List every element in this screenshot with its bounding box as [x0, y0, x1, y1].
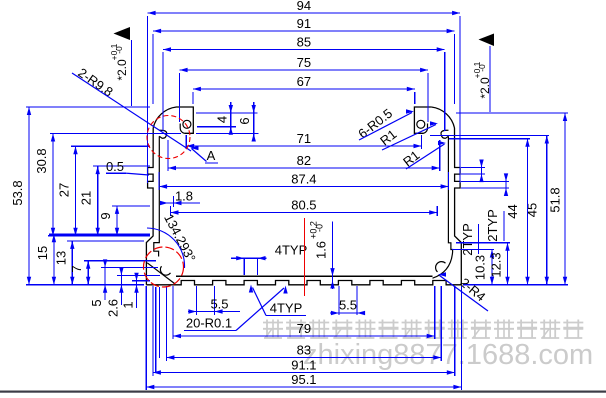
svg-text:4TYP: 4TYP [275, 243, 308, 258]
dim 85 [163, 35, 445, 52]
extension lines for dim 91 [153, 34, 455, 104]
svg-text:-0: -0 [315, 224, 325, 232]
dim 1.8 [160, 189, 200, 208]
svg-text:9: 9 [98, 212, 113, 219]
svg-text:95.1: 95.1 [291, 372, 316, 387]
extension lines for dim 71 [186, 135, 421, 149]
leader 2-R4 [438, 272, 489, 311]
svg-text:10.3: 10.3 [473, 255, 488, 280]
dim 0.5 [106, 159, 149, 175]
dim 2TYP second rib [461, 173, 509, 241]
angle dim 134.293 [147, 211, 199, 268]
dim 91.1 [153, 358, 455, 375]
dim 10.3 [452, 250, 494, 285]
svg-text:75: 75 [297, 55, 311, 70]
dim 20-R0.1 leader [184, 286, 288, 331]
svg-text:1.8: 1.8 [175, 189, 193, 204]
red centerline [304, 218, 306, 296]
watermark company text [263, 320, 593, 372]
dim 80.5 [171, 198, 438, 215]
dim 67 [193, 74, 415, 91]
svg-text:79: 79 [297, 321, 311, 336]
extension lines for dim 80.5 [171, 206, 438, 216]
dim 53.8 [10, 107, 150, 285]
dim 5.5 left [188, 286, 240, 315]
dim 9 [98, 206, 150, 236]
dim 95.1 [146, 372, 461, 389]
dim 12.3 [456, 243, 510, 285]
svg-text:20-R0.1: 20-R0.1 [186, 316, 232, 331]
svg-text:44: 44 [505, 204, 520, 218]
dim 15 [35, 234, 150, 284]
svg-text:45: 45 [525, 203, 540, 217]
svg-text:67: 67 [297, 74, 311, 89]
svg-text:30.8: 30.8 [34, 148, 49, 173]
bottom border line [0, 391, 606, 393]
dim 87.4 [159, 172, 449, 189]
extension lines for dim 95.1 [146, 286, 461, 390]
svg-text:zhixing8877.1688.com: zhixing8877.1688.com [303, 339, 593, 371]
svg-text:85: 85 [297, 35, 311, 50]
svg-text:-0: -0 [114, 46, 124, 54]
dim 2TYP first rib [460, 160, 485, 256]
dim 1.6 tolerance [309, 221, 335, 289]
svg-text:71: 71 [297, 131, 311, 146]
svg-text:-0: -0 [477, 64, 487, 72]
dim 4 [196, 102, 258, 135]
svg-text:27: 27 [57, 183, 72, 197]
leader R1 first [377, 121, 438, 150]
dim 4TYP leader [249, 285, 306, 316]
svg-text:0.5: 0.5 [106, 159, 124, 174]
extension lines for dim 82 [168, 140, 440, 171]
dim 91 [153, 16, 455, 33]
extension lines for dim 87.4 [159, 172, 449, 190]
svg-text:87.4: 87.4 [291, 172, 316, 187]
svg-text:91.1: 91.1 [291, 358, 316, 373]
dim 27 [57, 146, 151, 235]
svg-text:4: 4 [215, 116, 230, 123]
leader A detail [191, 146, 219, 163]
extension lines for dim 75 [180, 73, 429, 122]
dim 13 [53, 241, 144, 285]
dim 7 [69, 261, 156, 285]
leader R1 second [400, 141, 446, 170]
svg-text:6: 6 [237, 117, 252, 124]
extension line bottom right [463, 284, 568, 286]
svg-text:21: 21 [79, 191, 94, 205]
extension lines for dim 94 [148, 16, 461, 183]
extension lines for dim 91.1 [153, 286, 455, 376]
svg-text:13: 13 [53, 251, 68, 265]
dim 83 [166, 343, 441, 360]
svg-text:*2.0: *2.0 [115, 59, 129, 81]
svg-text:15: 15 [35, 246, 50, 260]
svg-text:53.8: 53.8 [10, 180, 25, 205]
svg-text:12.3: 12.3 [489, 252, 504, 277]
dim 1 [121, 273, 151, 309]
svg-text:94: 94 [297, 0, 311, 13]
dim 4TYP notch top [231, 243, 307, 276]
svg-text:2.6: 2.6 [106, 299, 121, 317]
dim 71 [186, 131, 421, 148]
dim 79 [173, 321, 435, 338]
extension lines for dim 83 [166, 286, 441, 361]
dim 44 [449, 139, 530, 285]
dim 75 [180, 55, 429, 72]
aluminum profile cross-section outline [146, 107, 461, 285]
surface note left *2.0 [109, 27, 132, 106]
svg-text:1.6: 1.6 [314, 241, 329, 259]
svg-text:51.8: 51.8 [548, 187, 563, 212]
dim 5 [89, 259, 158, 306]
svg-text:82: 82 [297, 153, 311, 168]
dim 21 [79, 166, 150, 236]
dim 6 [196, 102, 259, 142]
dim 94 [148, 0, 461, 15]
svg-text:2TYP: 2TYP [485, 209, 500, 242]
red detail circle bottom-left [144, 247, 184, 287]
dim 2.6 [106, 267, 161, 317]
svg-text:A: A [207, 148, 216, 163]
svg-text:5.5: 5.5 [210, 297, 228, 312]
svg-text:1: 1 [121, 301, 136, 308]
svg-text:5.5: 5.5 [339, 298, 357, 313]
dim 82 [168, 153, 440, 170]
svg-text:2TYP: 2TYP [460, 223, 475, 256]
svg-text:80.5: 80.5 [291, 198, 316, 213]
svg-text:5: 5 [89, 299, 104, 306]
svg-text:83: 83 [297, 343, 311, 358]
svg-text:7: 7 [69, 265, 84, 272]
svg-text:4TYP: 4TYP [270, 301, 303, 316]
extension lines for dim 67 [193, 92, 415, 104]
dim 5.5 right [330, 286, 365, 315]
red detail circle top-left [147, 116, 190, 159]
leader 6-R0.5 [355, 106, 414, 142]
dim 30.8 [34, 134, 181, 236]
extension lines for dim 79 [173, 286, 435, 339]
dim 45 [430, 136, 549, 285]
surface note right *2.0 [472, 34, 494, 113]
svg-text:91: 91 [297, 16, 311, 31]
extension lines bottom-left corner [156, 287, 160, 372]
extension lines for dim 85 [163, 52, 445, 131]
leader 2-R9.8 [72, 65, 191, 151]
dim 51.8 [456, 113, 568, 285]
